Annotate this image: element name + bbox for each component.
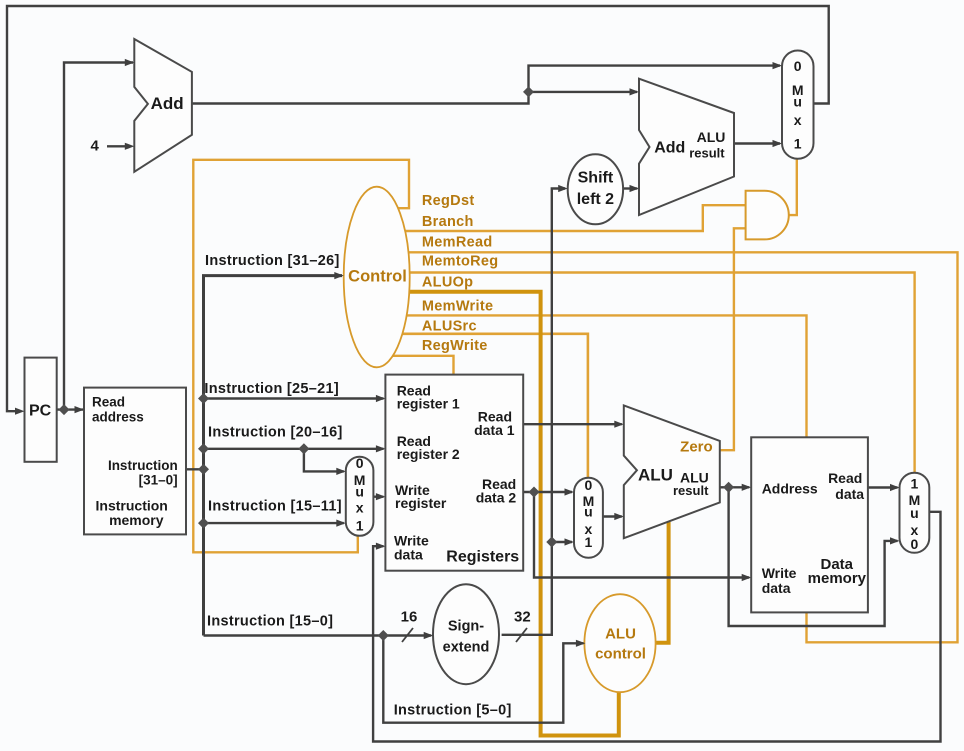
svg-text:MemRead: MemRead bbox=[422, 235, 493, 251]
svg-text:Instruction [15–11]: Instruction [15–11] bbox=[208, 499, 342, 515]
svg-text:0: 0 bbox=[585, 477, 593, 493]
svg-text:PC: PC bbox=[29, 403, 52, 420]
svg-text:ALU: ALU bbox=[697, 129, 726, 145]
svg-text:x: x bbox=[794, 112, 802, 128]
svg-text:0: 0 bbox=[794, 58, 802, 74]
svg-text:memory: memory bbox=[808, 570, 867, 587]
svg-text:ALUOp: ALUOp bbox=[422, 275, 473, 291]
svg-text:32: 32 bbox=[514, 609, 531, 626]
svg-text:ALU: ALU bbox=[605, 626, 636, 643]
svg-text:Instruction [31–26]: Instruction [31–26] bbox=[205, 253, 340, 269]
svg-text:register: register bbox=[395, 495, 447, 511]
svg-text:Control: Control bbox=[348, 268, 407, 286]
svg-text:MemWrite: MemWrite bbox=[422, 299, 493, 315]
svg-text:data: data bbox=[394, 547, 423, 563]
svg-text:u: u bbox=[910, 505, 919, 521]
svg-text:Add: Add bbox=[151, 94, 184, 113]
svg-text:memory: memory bbox=[109, 512, 164, 528]
svg-text:4: 4 bbox=[91, 138, 100, 155]
svg-text:register 1: register 1 bbox=[397, 396, 460, 412]
svg-text:Add: Add bbox=[654, 140, 685, 157]
svg-text:Branch: Branch bbox=[422, 214, 474, 230]
svg-text:u: u bbox=[355, 484, 364, 500]
svg-text:0: 0 bbox=[356, 455, 364, 471]
svg-text:Registers: Registers bbox=[446, 549, 519, 566]
svg-text:left 2: left 2 bbox=[577, 191, 614, 208]
svg-text:data: data bbox=[835, 486, 864, 502]
svg-text:[31–0]: [31–0] bbox=[139, 473, 178, 488]
svg-text:1: 1 bbox=[911, 476, 919, 492]
svg-text:MemtoReg: MemtoReg bbox=[422, 254, 499, 270]
svg-text:x: x bbox=[356, 500, 364, 516]
svg-text:Instruction: Instruction bbox=[108, 458, 178, 473]
svg-text:Shift: Shift bbox=[578, 170, 614, 187]
svg-text:Instruction [15–0]: Instruction [15–0] bbox=[207, 614, 333, 630]
svg-text:data 2: data 2 bbox=[476, 490, 517, 506]
svg-text:Sign-: Sign- bbox=[448, 619, 484, 635]
svg-text:ALU: ALU bbox=[638, 466, 673, 485]
svg-text:data: data bbox=[762, 580, 791, 596]
svg-text:address: address bbox=[92, 410, 144, 425]
svg-text:control: control bbox=[595, 646, 646, 663]
svg-text:0: 0 bbox=[911, 536, 919, 552]
svg-text:data 1: data 1 bbox=[474, 422, 515, 438]
svg-text:Instruction [5–0]: Instruction [5–0] bbox=[394, 703, 512, 719]
svg-text:Read: Read bbox=[92, 395, 125, 410]
svg-text:1: 1 bbox=[356, 518, 364, 534]
svg-text:Write: Write bbox=[762, 565, 797, 581]
svg-text:extend: extend bbox=[443, 640, 490, 656]
svg-text:Address: Address bbox=[762, 481, 818, 497]
svg-text:Instruction [25–21]: Instruction [25–21] bbox=[204, 381, 339, 397]
svg-text:u: u bbox=[793, 94, 802, 110]
svg-text:Instruction [20–16]: Instruction [20–16] bbox=[208, 425, 343, 441]
svg-text:Zero: Zero bbox=[680, 439, 713, 456]
svg-text:result: result bbox=[673, 483, 709, 498]
svg-text:RegWrite: RegWrite bbox=[422, 338, 488, 354]
svg-text:ALUSrc: ALUSrc bbox=[422, 319, 477, 335]
svg-text:16: 16 bbox=[401, 609, 418, 626]
svg-text:1: 1 bbox=[585, 534, 593, 550]
svg-text:Read: Read bbox=[828, 470, 862, 486]
svg-text:1: 1 bbox=[794, 136, 802, 152]
svg-text:RegDst: RegDst bbox=[422, 193, 475, 209]
svg-text:u: u bbox=[584, 504, 593, 520]
svg-text:register 2: register 2 bbox=[397, 446, 460, 462]
svg-text:result: result bbox=[689, 146, 725, 161]
